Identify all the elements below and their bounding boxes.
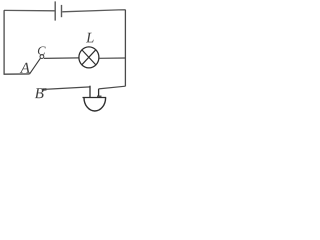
wire top-right: [62, 10, 125, 12]
contact B (terminal dash): [42, 88, 47, 90]
wire lamp to right border: [99, 57, 126, 59]
wire bell to right border: [99, 86, 126, 89]
wire left border: [3, 10, 5, 74]
lamp L circle: [79, 47, 99, 68]
lamp X diagonal 2: [82, 50, 96, 65]
wire right border: [124, 10, 126, 87]
bell gong dome: [84, 98, 106, 111]
contact C (small circle): [40, 55, 44, 59]
bell right terminal stub: [98, 89, 100, 97]
battery cell long plate: [54, 1, 56, 20]
label L: [86, 33, 94, 43]
wire B to bell: [44, 87, 90, 90]
battery cell short plate: [61, 5, 63, 17]
switch blade A to C: [30, 58, 41, 74]
bell left terminal stub: [89, 86, 91, 98]
bell gong top plate: [83, 97, 107, 99]
label A: [20, 63, 30, 73]
wire to switch pivot A: [4, 73, 30, 75]
label B: [35, 88, 44, 98]
wire C to lamp: [44, 57, 79, 60]
label C: [38, 46, 46, 54]
bell right terminal foot: [97, 95, 102, 97]
lamp X diagonal 1: [82, 50, 96, 65]
wire top-left: [4, 9, 55, 11]
